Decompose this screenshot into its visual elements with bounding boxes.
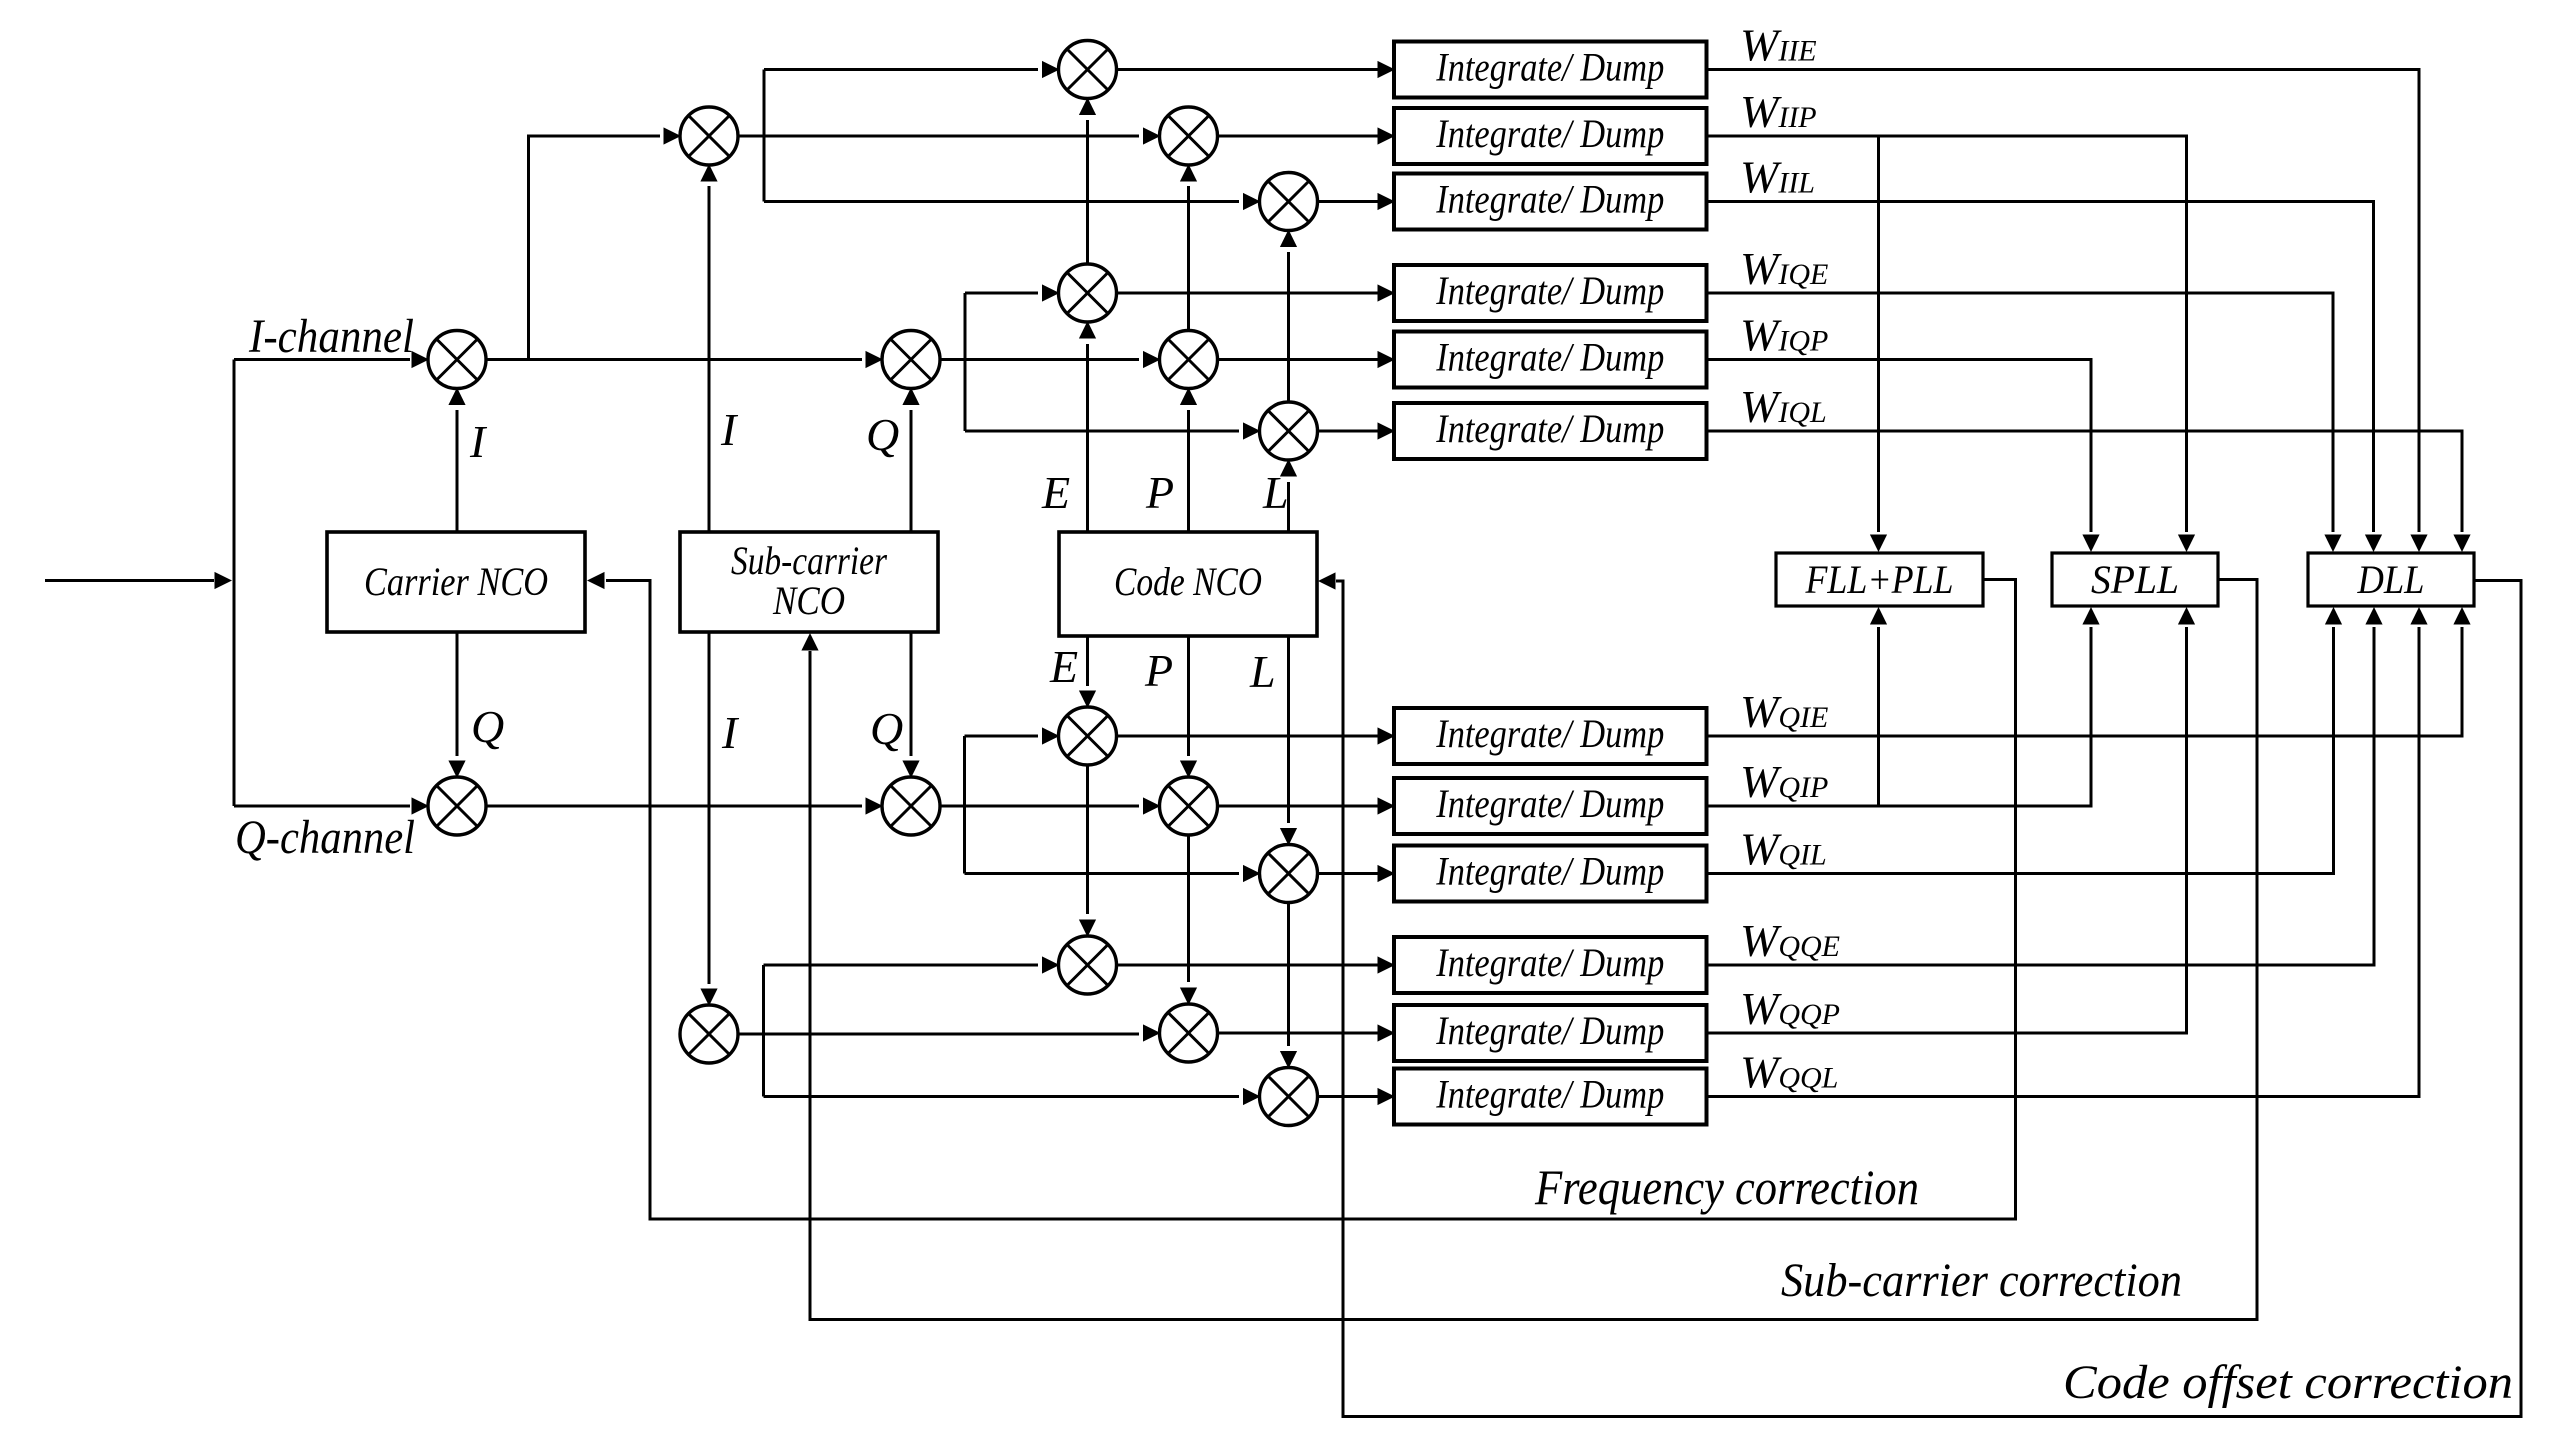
wire code P up segment 2 [1180,164,1197,331]
wire WQIP branch to FLL+PLL bottom [1870,607,1887,806]
box Integrate/Dump QIE [1394,708,1707,764]
wire WIQP to loop filter top [1707,360,2100,553]
wire I-channel into mixer M1 [234,351,429,368]
wire WQQP to loop filter bottom [1707,607,2196,1033]
wire sub-carrier Q down to M10 [902,632,919,778]
svg-text:Integrate/ Dump: Integrate/ Dump [1435,940,1664,985]
mixer M2 carrier Q [428,777,486,835]
svg-text:Integrate/ Dump: Integrate/ Dump [1435,1008,1664,1053]
wire WIQE to loop filter top [1707,293,2342,552]
svg-text:Integrate/ Dump: Integrate/ Dump [1435,781,1664,826]
label Frequency correction [1534,1159,1919,1215]
wire WIIP to loop filter top [1707,136,2196,552]
wire M_IQE output to integrator [1117,284,1396,301]
wire code offset correction loop [1318,572,2521,1416]
wire input signal [45,572,232,589]
mixer M_QIE code E [1059,707,1117,765]
wire code E up segment 2 [1079,98,1096,265]
wire WQQE to loop filter bottom [1707,607,2383,965]
svg-text:I: I [721,707,740,758]
box Integrate/Dump QQL [1394,1069,1707,1125]
wire M_IQP output to integrator [1218,351,1396,368]
svg-text:FLL+PLL: FLL+PLL [1805,557,1954,602]
wire M_IIP output to integrator [1218,127,1396,144]
svg-text:Integrate/ Dump: Integrate/ Dump [1435,1072,1664,1117]
wire II tap to M_IIL [764,193,1261,210]
label WIQE [1740,243,1828,294]
box FLL+PLL [1776,553,1983,606]
label P upper [1145,467,1174,518]
wire WIQL to loop filter top [1707,431,2471,552]
mixer M_IQE code E [1059,264,1117,322]
mixer M_QQL code L [1260,1068,1318,1126]
label WIQP [1740,310,1828,361]
wire M3 output to M_IIP [738,127,1161,144]
mixer M_IIL code L [1260,173,1318,231]
label WQIE [1740,686,1828,737]
svg-text:Integrate/ Dump: Integrate/ Dump [1435,177,1664,222]
wire M_QIE output to integrator [1117,727,1396,744]
wire M1 output to mixer M4 [486,351,883,368]
box Integrate/Dump IQL [1394,403,1707,459]
label I sub-carrier lower [721,707,740,758]
label WQIL [1740,824,1827,875]
wire IQ tap to M_IQE [965,284,1060,301]
wire code E down segment 1 [1079,636,1096,708]
label Q sub-carrier lower [870,703,903,754]
label E upper [1041,467,1070,518]
wire M_IIE output to integrator [1117,61,1396,78]
label Q-channel [235,811,415,864]
wire WIIP branch to FLL+PLL top [1870,136,1887,552]
box Integrate/Dump IIP [1394,108,1707,164]
box Sub-carrier NCO [680,532,938,632]
svg-text:Frequency correction: Frequency correction [1534,1159,1919,1215]
box Integrate/Dump IIL [1394,174,1707,230]
wire M_QQL output to integrator [1318,1088,1396,1105]
svg-text:Integrate/ Dump: Integrate/ Dump [1435,711,1664,756]
box Integrate/Dump IQE [1394,265,1707,321]
svg-text:Carrier NCO: Carrier NCO [364,559,548,604]
wire II tap vertical [763,70,766,202]
label L lower [1249,646,1276,697]
box Integrate/Dump QQP [1394,1005,1707,1061]
wire M4 output to M_IQP [940,351,1161,368]
svg-text:I-channel: I-channel [248,310,414,363]
wire IQ tap to M_IQL [965,422,1261,439]
label WIIP [1740,86,1817,137]
svg-text:P: P [1144,645,1173,696]
svg-text:L: L [1249,646,1276,697]
svg-text:P: P [1145,467,1174,518]
svg-text:Q: Q [870,703,903,754]
wire code L down segment 1 [1280,636,1297,846]
svg-text:Code offset correction: Code offset correction [2063,1356,2513,1409]
mixer M_IQP code P [1160,331,1218,389]
label P lower [1144,645,1173,696]
svg-text:Integrate/ Dump: Integrate/ Dump [1435,268,1664,313]
wire code P down segment 1 [1180,636,1197,778]
wire code E up segment 1 [1079,321,1096,532]
mixer M10 sub-carrier Q (Q-channel) [882,777,940,835]
wire WQQL to loop filter bottom [1707,607,2428,1097]
box Integrate/Dump QIP [1394,778,1707,834]
svg-text:E: E [1049,641,1078,692]
mixer M_IIP code P [1160,107,1218,165]
box Code NCO [1059,532,1317,636]
box Integrate/Dump IIE [1394,42,1707,98]
label Q sub-carrier upper [866,409,899,460]
wire WIIE to loop filter top [1707,70,2428,553]
mixer M9 sub-carrier I (Q-channel) [680,1005,738,1063]
mixer M_QQE code E [1059,936,1117,994]
label WQQP [1740,983,1840,1034]
label WQIP [1740,756,1828,807]
wire WQIL to loop filter bottom [1707,607,2343,874]
svg-text:Sub-carrier correction: Sub-carrier correction [1781,1254,2182,1307]
wire QI tap vertical [963,736,966,874]
svg-text:NCO: NCO [772,578,845,623]
label WQQL [1740,1047,1838,1098]
wire I/Q split vertical [233,360,236,807]
wire QI tap to M_QIL [965,865,1261,882]
box DLL [2308,553,2474,606]
wire WQIP to loop filter bottom [1707,607,2100,806]
label WIQL [1740,381,1827,432]
mixer M_IQL code L [1260,402,1318,460]
label WIIL [1740,152,1815,203]
mixer M_QQP code P [1160,1004,1218,1062]
mixer M1 carrier I [428,331,486,389]
svg-text:Integrate/ Dump: Integrate/ Dump [1435,45,1664,90]
svg-text:Integrate/ Dump: Integrate/ Dump [1435,406,1664,451]
mixer M3 sub-carrier I (I-channel) [680,107,738,165]
svg-text:I: I [469,416,488,467]
mixer M_QIP code P [1160,777,1218,835]
wire branch up to mixer M3 [529,127,682,359]
wire code E down segment 2 [1079,765,1096,937]
wire code L up segment 1 [1280,459,1297,532]
wire QI tap to M_QIE [965,727,1060,744]
box Integrate/Dump QIL [1394,846,1707,902]
label WIIE [1740,20,1817,71]
wire M_QIL output to integrator [1318,865,1396,882]
box Integrate/Dump IQP [1394,332,1707,388]
wire M_QQP output to integrator [1218,1024,1396,1041]
label Q carrier [471,701,504,752]
wire frequency correction loop [587,572,2016,1219]
wire WIIL to loop filter top [1707,202,2383,553]
wire WQIE to loop filter bottom [1707,607,2471,736]
mixer M4 sub-carrier Q (I-channel) [882,331,940,389]
label E lower [1049,641,1078,692]
mixer M_QIL code L [1260,845,1318,903]
wire Q-channel into mixer M2 [234,797,429,814]
wire code P down segment 2 [1180,835,1197,1005]
wire IQ tap vertical [964,293,967,431]
svg-text:Q: Q [471,701,504,752]
svg-text:I: I [720,404,739,455]
wire sub-carrier I down to M9 [700,632,717,1006]
svg-text:Code NCO: Code NCO [1114,559,1262,604]
box Integrate/Dump QQE [1394,937,1707,993]
wire M_IQL output to integrator [1318,422,1396,439]
wire M2 output to mixer M10 [486,797,883,814]
wire code L up segment 2 [1280,230,1297,403]
svg-text:E: E [1041,467,1070,518]
label I sub-carrier upper [720,404,739,455]
wire code P up segment 1 [1180,388,1197,533]
label L upper [1262,467,1289,518]
label I carrier [469,416,488,467]
wire carrier Q output down to M2 [448,632,465,778]
wire QQ tap to M_QQL [764,1088,1261,1105]
svg-text:Integrate/ Dump: Integrate/ Dump [1435,849,1664,894]
wire sub-carrier I up to M3 [700,164,717,532]
mixer M_IIE code E [1059,41,1117,99]
wire sub-carrier correction loop [801,580,2257,1320]
box Carrier NCO [327,532,585,632]
wire II tap to M_IIE [764,61,1060,78]
svg-text:Integrate/ Dump: Integrate/ Dump [1435,111,1664,156]
svg-text:Integrate/ Dump: Integrate/ Dump [1435,335,1664,380]
svg-text:Q: Q [866,409,899,460]
svg-text:Sub-carrier: Sub-carrier [731,538,887,583]
wire M_QIP output to integrator [1218,797,1396,814]
svg-text:DLL: DLL [2357,557,2425,602]
label WQQE [1740,915,1840,966]
wire QQ tap vertical [762,965,765,1097]
wire carrier I output up to M1 [448,388,465,533]
box SPLL [2052,553,2218,606]
wire QQ tap to M_QQE [764,956,1060,973]
wire sub-carrier Q up to M4 [902,388,919,533]
wire M_QQE output to integrator [1117,956,1396,973]
wire M10 output to M_QIP [940,797,1161,814]
label I-channel [248,310,414,363]
label Code offset correction [2063,1356,2513,1409]
svg-text:SPLL: SPLL [2091,557,2179,602]
svg-text:Q-channel: Q-channel [235,811,415,864]
label Sub-carrier correction [1781,1254,2182,1307]
wire code L down segment 2 [1280,903,1297,1069]
wire M9 output to M_QQP [738,1024,1161,1041]
wire M_IIL output to integrator [1318,193,1396,210]
